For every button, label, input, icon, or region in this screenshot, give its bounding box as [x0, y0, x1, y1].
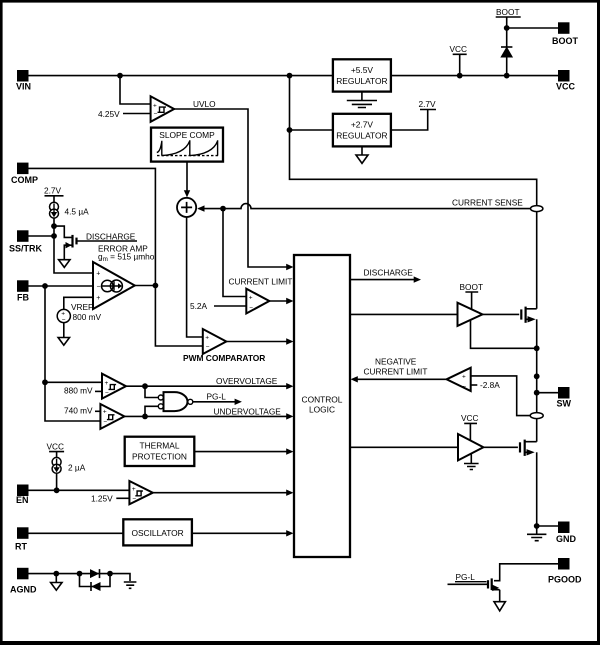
svg-text:RT: RT	[15, 542, 27, 552]
svg-text:REGULATOR: REGULATOR	[336, 76, 387, 86]
wire EN current source to EN line	[56, 473, 58, 490]
pin FB	[17, 280, 29, 302]
wire VIN to UVLO + input	[120, 76, 151, 104]
summer node sigma	[177, 198, 196, 217]
svg-text:CONTROL: CONTROL	[302, 394, 343, 404]
hysteresis glyph inside OV comp	[109, 385, 117, 390]
svg-text:EN: EN	[16, 495, 29, 505]
wire PGOOD pin to PG-L drain	[494, 564, 558, 581]
wire error amp output to COMP node	[135, 285, 156, 287]
node BOOT junction	[504, 25, 510, 31]
wire tap into 2.7V regulator	[290, 129, 333, 131]
svg-text:−: −	[249, 304, 253, 311]
node OV to NAND tap	[142, 383, 148, 389]
wire RT pin to oscillator	[29, 532, 124, 534]
current sense element ellipse bottom	[530, 413, 543, 419]
arrow OVERVOLTAGE into control logic	[286, 383, 293, 389]
wire slope comp to summer	[186, 162, 188, 195]
ground earth below 5.5V regulator	[347, 92, 377, 108]
svg-text:FB: FB	[17, 293, 29, 303]
current source I2 2uA	[52, 457, 61, 473]
op-amp U7 current limit comparator	[246, 289, 269, 314]
svg-text:−: −	[97, 284, 101, 291]
arrow thermal into control logic	[286, 448, 293, 454]
current sense element ellipse top	[531, 206, 543, 212]
pin GND	[556, 522, 577, 545]
svg-text:−: −	[105, 390, 109, 397]
arrow PG-L	[235, 399, 242, 405]
svg-text:1.25V: 1.25V	[91, 493, 113, 503]
wire PG-L gate	[448, 583, 489, 585]
wire GND junction to GND pin	[537, 525, 558, 527]
svg-text:VCC: VCC	[47, 442, 65, 452]
op-amp U5 undervoltage comparator 740mV	[100, 404, 124, 429]
ground earth right of AGND diodes	[124, 582, 137, 588]
gate U6 NAND	[158, 392, 193, 411]
ground triangle below discharge MOSFET	[59, 260, 70, 268]
arrow EN into control logic	[286, 490, 293, 496]
arrow current limit into control logic	[286, 298, 293, 304]
waveform inside slope comp	[157, 140, 218, 155]
wire AGND pin	[29, 574, 131, 581]
pin PGOOD	[548, 558, 582, 585]
wire EN comparator output	[153, 492, 291, 494]
wire thermal protection output	[194, 451, 290, 453]
node FB junction	[42, 283, 48, 289]
block OSCILLATOR	[123, 519, 192, 545]
hysteresis glyph inside EN comp	[135, 491, 143, 496]
wire SS/TRK node vertical	[54, 218, 93, 273]
node VIN/UVLO junction	[117, 73, 123, 79]
pin VIN	[16, 70, 31, 92]
svg-text:4.5 µA: 4.5 µA	[65, 207, 90, 217]
source VREF 800mV	[57, 309, 70, 323]
svg-text:REGULATOR: REGULATOR	[336, 131, 387, 141]
svg-text:2.7V: 2.7V	[419, 99, 437, 109]
pin VCC	[556, 70, 576, 92]
amp U12 low-side gate driver	[458, 434, 483, 460]
net label BOOT tick top	[496, 7, 521, 28]
pin BOOT	[552, 22, 579, 46]
gm symbol circles inside error amp	[102, 280, 123, 292]
wire SW junction to SW pin	[537, 392, 558, 394]
node 2.7V regulator input tap	[287, 127, 293, 133]
ground triangle below AGND	[51, 574, 62, 591]
amp U10 high-side gate driver	[458, 303, 483, 326]
svg-text:4.25V: 4.25V	[98, 109, 120, 119]
wire AGND bottom diode loop	[80, 574, 111, 587]
transistor Q2 high-side MOSFET	[521, 307, 536, 442]
hysteresis glyph inside UVLO	[158, 107, 167, 112]
svg-text:880 mV: 880 mV	[64, 385, 93, 395]
ground triangle below 2.7V regulator	[361, 146, 363, 155]
wire DISCHARGE output of control logic	[350, 279, 416, 281]
hysteresis glyph inside UV comp	[107, 415, 115, 420]
svg-text:UVLO: UVLO	[193, 99, 216, 109]
wire UV tap to NAND input	[145, 406, 158, 416]
wire NCL output to control logic	[356, 378, 447, 380]
wire CURRENT SENSE line with hop	[199, 204, 534, 209]
ground triangle below PGOOD MOSFET	[494, 602, 505, 611]
svg-text:−: −	[154, 111, 158, 118]
svg-text:BOOT: BOOT	[460, 282, 484, 292]
svg-text:-2.8A: -2.8A	[480, 380, 500, 390]
node AGND junction 3	[107, 571, 113, 577]
wire UVLO output	[174, 109, 291, 267]
pin RT	[15, 527, 29, 551]
net label BOOT tick above driver	[460, 282, 484, 309]
net label VCC tick above EN current source	[47, 442, 65, 458]
wire VREF to ground	[63, 323, 65, 338]
svg-text:−: −	[132, 496, 136, 503]
pin AGND	[10, 568, 37, 595]
node high-side source junction	[534, 345, 540, 351]
svg-text:VREF: VREF	[71, 302, 93, 312]
wire driver to low-side gate	[483, 446, 518, 448]
wire FB pin to error amp - input	[29, 285, 94, 287]
wire NCL - input stub	[471, 384, 478, 386]
wire driver return to source node	[471, 321, 537, 349]
node mid rail junction	[534, 373, 540, 379]
label VREF 800 mV	[71, 302, 102, 322]
op-amp U8 PWM comparator	[203, 329, 227, 354]
arrow oscillator into control logic	[286, 530, 293, 536]
svg-text:DISCHARGE: DISCHARGE	[86, 231, 136, 241]
node EN junction	[54, 487, 60, 493]
svg-text:BOOT: BOOT	[552, 36, 579, 46]
ground triangle below VREF	[58, 338, 69, 346]
arrow UNDERVOLTAGE into control logic	[286, 413, 293, 419]
transistor Q3 low-side MOSFET	[520, 440, 537, 526]
border frame bottom	[0, 641, 600, 645]
diode D3 AGND bottom	[91, 582, 101, 591]
wire control logic to low-side driver	[350, 446, 458, 448]
pin COMP	[11, 163, 38, 185]
net label 2.7V tick above current source	[44, 186, 64, 203]
svg-text:−: −	[462, 383, 466, 390]
svg-text:2.7V: 2.7V	[44, 186, 62, 196]
node UV to NAND tap	[142, 414, 148, 420]
svg-text:OVERVOLTAGE: OVERVOLTAGE	[216, 376, 278, 386]
svg-text:+2.7V: +2.7V	[351, 120, 374, 130]
border frame left	[0, 0, 3, 645]
svg-text:VCC: VCC	[461, 413, 479, 423]
svg-text:VCC: VCC	[450, 44, 468, 54]
svg-text:CURRENT LIMIT: CURRENT LIMIT	[364, 366, 428, 376]
label NEGATIVE CURRENT LIMIT	[364, 356, 428, 376]
arrow NCL into control logic right edge	[351, 376, 358, 382]
svg-text:+: +	[105, 380, 109, 387]
svg-text:PGOOD: PGOOD	[548, 575, 582, 585]
svg-text:NEGATIVE: NEGATIVE	[375, 356, 417, 366]
wire 1.25V into - input	[116, 497, 129, 499]
svg-text:5.2A: 5.2A	[190, 301, 208, 311]
wire VIN rail	[29, 75, 559, 77]
svg-text:+: +	[249, 295, 253, 302]
svg-text:800 mV: 800 mV	[73, 312, 102, 322]
node VCC tick junction	[457, 73, 463, 79]
transistor Q1 discharge MOSFET	[54, 226, 137, 260]
svg-text:+: +	[153, 103, 157, 110]
arrow into summing junction from right	[197, 205, 204, 211]
wire 740mV into + input	[95, 410, 100, 412]
svg-text:PWM COMPARATOR: PWM COMPARATOR	[183, 353, 265, 363]
node SW junction	[534, 390, 540, 396]
ground earth below GND node	[527, 526, 546, 541]
wire PG-L output of NAND	[193, 401, 237, 403]
node diode to VCC rail junction	[504, 73, 510, 79]
diode D2 AGND top	[90, 569, 100, 578]
node FB to OV comparator junction	[42, 379, 48, 385]
node discharge drain tap	[51, 223, 57, 229]
pin SW	[557, 387, 572, 409]
wire control logic to high-side driver	[350, 313, 458, 315]
wire OV tap to NAND input	[145, 386, 158, 397]
svg-text:BOOT: BOOT	[496, 7, 520, 17]
wire PWM output	[226, 341, 290, 343]
wire VIN drop to high-side drain rail	[290, 76, 537, 309]
svg-text:DISCHARGE: DISCHARGE	[364, 267, 414, 277]
arrow into summer from top	[184, 190, 190, 197]
arrow PWM into control logic	[286, 338, 293, 344]
svg-text:−: −	[103, 419, 107, 426]
wire BOOT node to BOOT pin	[507, 27, 558, 29]
net label 2.7V output tick	[391, 99, 436, 130]
wire driver to high-side gate	[482, 313, 519, 315]
diode D1 bootstrap	[501, 47, 512, 57]
node current limit tap	[220, 206, 226, 212]
svg-text:−: −	[206, 344, 210, 351]
wire VREF to error amp + input	[64, 297, 93, 309]
svg-text:+: +	[103, 409, 107, 416]
svg-text:+5.5V: +5.5V	[351, 65, 374, 75]
wire UNDERVOLTAGE output	[124, 415, 290, 417]
op-amp U9 EN comparator	[129, 481, 152, 504]
wire 5.2A into - input	[214, 305, 246, 307]
svg-text:CURRENT SENSE: CURRENT SENSE	[452, 197, 523, 207]
node GND junction	[534, 523, 540, 529]
svg-text:THERMAL: THERMAL	[139, 441, 179, 451]
wire EN pin to comparator	[29, 489, 130, 491]
svg-text:2 µA: 2 µA	[68, 462, 86, 472]
svg-text:+: +	[205, 334, 209, 341]
svg-text:740 mV: 740 mV	[64, 406, 93, 416]
svg-text:+: +	[96, 271, 100, 278]
node error amp output junction	[153, 283, 159, 289]
svg-text:SLOPE COMP: SLOPE COMP	[159, 130, 215, 140]
regulator U1 +5.5V REGULATOR	[333, 59, 391, 91]
op-amp U4 overvoltage comparator 880mV	[102, 374, 126, 399]
wire FB vertical to OV/UV comparators	[45, 286, 102, 421]
svg-text:COMP: COMP	[11, 175, 38, 185]
svg-text:CURRENT LIMIT: CURRENT LIMIT	[229, 276, 293, 286]
svg-text:LOGIC: LOGIC	[309, 405, 335, 415]
net label VCC tick on rail	[450, 44, 468, 76]
block CONTROL LOGIC	[294, 255, 350, 557]
wire tap down to current limit comparator	[223, 209, 246, 297]
pin EN	[16, 485, 29, 506]
ground earth below low driver	[464, 454, 479, 469]
svg-text:SW: SW	[557, 399, 572, 409]
svg-text:PG-L: PG-L	[456, 572, 476, 582]
wire COMP net	[29, 168, 203, 346]
net label VCC tick above low driver	[461, 413, 479, 440]
current source I1 4.5uA	[50, 202, 59, 218]
border frame top	[0, 0, 600, 3]
node VIN drop junction	[287, 73, 293, 79]
node AGND junction 2	[77, 571, 83, 577]
block THERMAL PROTECTION	[125, 437, 195, 466]
label PG-L gate	[455, 572, 487, 582]
wire OVERVOLTAGE output	[126, 385, 291, 387]
svg-text:VCC: VCC	[556, 82, 576, 92]
pin SS/TRK	[9, 230, 43, 253]
svg-text:PROTECTION: PROTECTION	[132, 451, 187, 461]
svg-text:SS/TRK: SS/TRK	[9, 244, 43, 254]
svg-text:+: +	[462, 374, 466, 381]
svg-text:+: +	[96, 295, 100, 302]
arrow UVLO into control logic	[286, 264, 293, 270]
wire SS/TRK pin	[29, 235, 55, 237]
block SLOPE COMP	[151, 128, 223, 162]
node SS/TRK junction	[51, 233, 57, 239]
svg-text:OSCILLATOR: OSCILLATOR	[131, 528, 183, 538]
wire BOOT diode branch	[506, 28, 508, 76]
wire summer output to PWM + input	[187, 217, 203, 337]
svg-text:GND: GND	[556, 534, 577, 544]
wire NCL + input sense path	[471, 376, 530, 416]
wire 880mV into - input	[95, 390, 102, 392]
arrow DISCHARGE	[414, 276, 421, 282]
transistor Q4 PGOOD MOSFET	[488, 578, 500, 601]
wire current limit output	[269, 300, 291, 302]
svg-text:PG-L: PG-L	[207, 391, 227, 401]
border frame right	[597, 0, 600, 645]
op-amp UVLO comparator	[151, 96, 175, 122]
wire 4.25V into UVLO - input	[123, 113, 151, 115]
svg-text:AGND: AGND	[10, 585, 37, 595]
regulator U2 +2.7V REGULATOR	[333, 114, 391, 147]
op-amp U3 error amp	[93, 262, 135, 309]
svg-text:VIN: VIN	[16, 82, 31, 92]
svg-text:+: +	[132, 486, 136, 493]
wire oscillator output	[192, 532, 291, 534]
svg-text:UNDERVOLTAGE: UNDERVOLTAGE	[214, 406, 282, 416]
node AGND junction 1	[53, 571, 59, 577]
op-amp U11 negative current limit comparator	[447, 368, 471, 391]
